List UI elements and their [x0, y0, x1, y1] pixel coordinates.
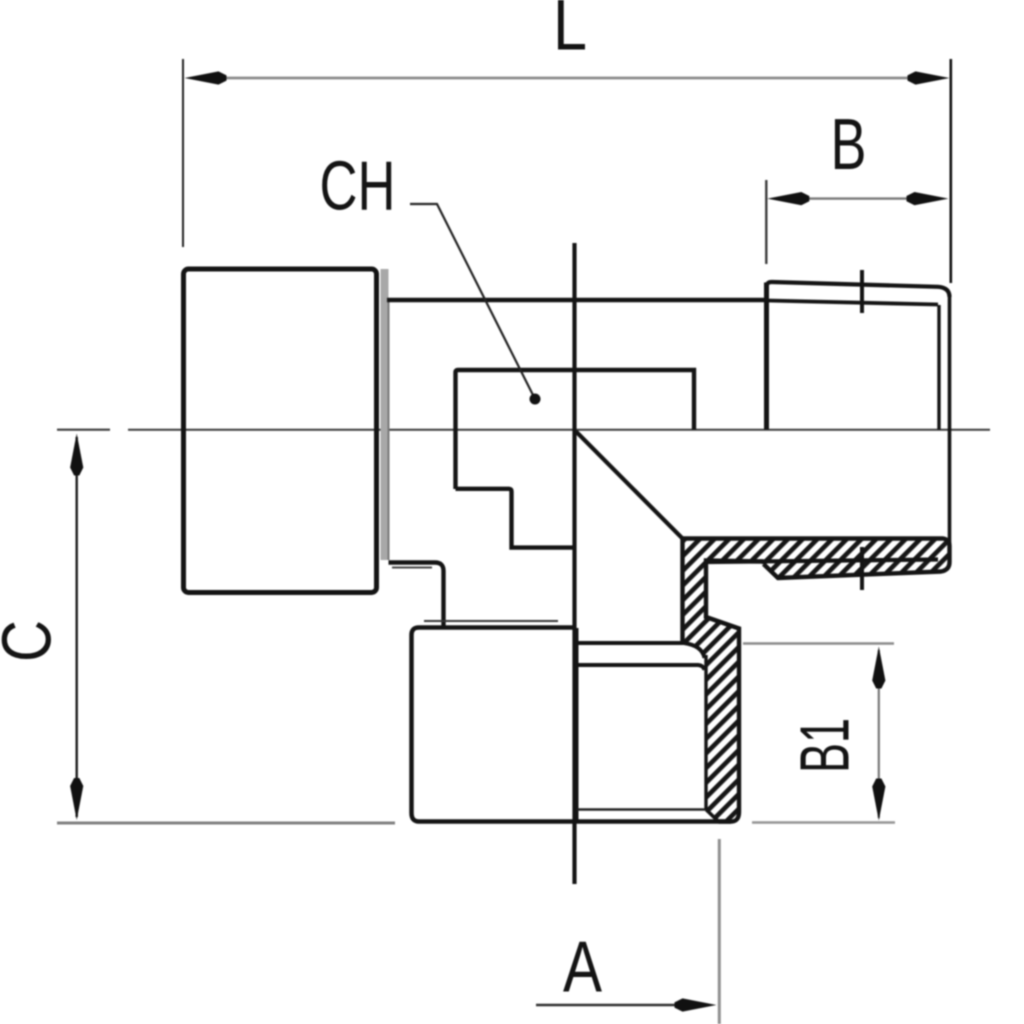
svg-text:A: A: [563, 928, 602, 1008]
svg-text:C: C: [0, 620, 66, 662]
svg-text:CH: CH: [320, 147, 396, 225]
svg-text:B: B: [831, 105, 867, 185]
svg-text:B1: B1: [786, 718, 864, 773]
svg-text:L: L: [553, 0, 587, 66]
